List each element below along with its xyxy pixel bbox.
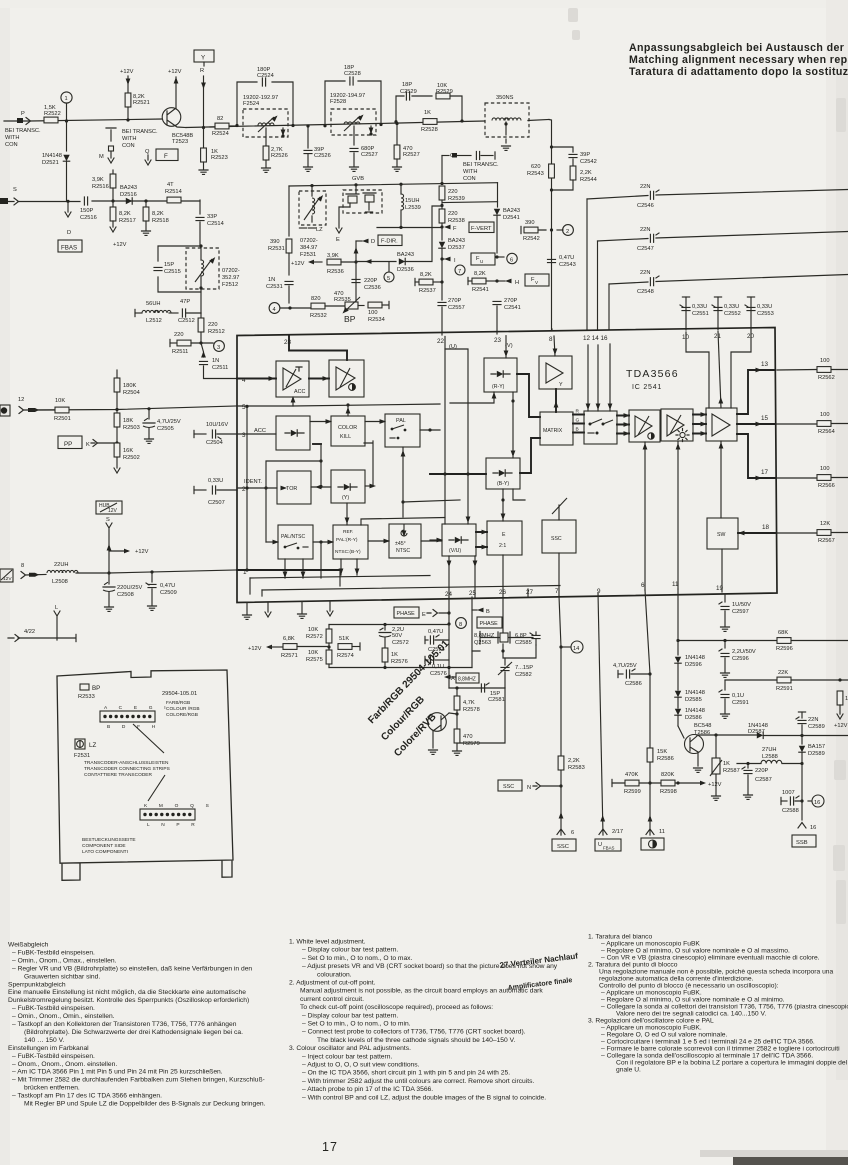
svg-text:CON: CON: [5, 142, 18, 148]
svg-text:620: 620: [531, 164, 541, 170]
svg-text:33P: 33P: [207, 214, 217, 220]
wire x442 column: [441, 156, 443, 184]
svg-text:8,8MHZ: 8,8MHZ: [474, 633, 495, 639]
svg-text:TOR: TOR: [286, 486, 297, 492]
svg-text:SSC: SSC: [503, 784, 514, 790]
svg-text:180K: 180K: [123, 383, 136, 389]
input connector S: [0, 187, 19, 205]
svg-text:384.97: 384.97: [300, 245, 317, 251]
bottom pin labels 24-27 7 9: [445, 588, 601, 598]
S stub below: [106, 517, 112, 575]
transcoder note: [84, 760, 170, 778]
stub E: [336, 207, 350, 243]
resistor R2504: [114, 370, 140, 409]
pin2 wire: [237, 486, 287, 491]
input connector P: [17, 111, 31, 125]
svg-text:R2526: R2526: [271, 153, 288, 159]
svg-text:(R-Y): (R-Y): [492, 384, 505, 390]
resistor R2503: [114, 410, 140, 445]
svg-text:3. Regolazioni dell'oscillator: 3. Regolazioni dell'oscillatore colore e…: [588, 1018, 714, 1025]
svg-text:1N: 1N: [268, 277, 275, 283]
svg-text:07202-: 07202-: [300, 238, 318, 244]
PAL down wire: [401, 447, 460, 517]
svg-text:12V: 12V: [108, 508, 118, 514]
wire down to C2588: [800, 764, 803, 821]
phase top wire: [329, 623, 449, 626]
pins 12 14 16: [583, 335, 608, 342]
svg-text:BA157: BA157: [808, 744, 825, 750]
svg-text:1K: 1K: [723, 761, 730, 767]
svg-text:– With control BP and coil LZ: – With control BP and coil LZ, adjust th…: [302, 1094, 546, 1101]
node 6 circle: [497, 253, 517, 263]
svg-text:R2536: R2536: [327, 269, 344, 275]
crystal bottom wire: [472, 644, 536, 658]
resistor R2538: [439, 206, 465, 240]
diode D2516: [120, 185, 137, 204]
svg-text:0,33U: 0,33U: [208, 478, 223, 484]
svg-text:BA243: BA243: [397, 252, 414, 258]
68K wire: [676, 639, 848, 642]
pin 21: [714, 333, 722, 340]
svg-text:1N4148: 1N4148: [685, 655, 705, 661]
resistor R2591: [776, 670, 793, 692]
svg-text:10K: 10K: [55, 398, 65, 404]
capacitor C2541: [493, 298, 521, 334]
note bei transc (mid): [122, 129, 158, 149]
resistor R2572: [306, 625, 332, 651]
resistor R2599: [624, 772, 641, 795]
resistor R2541: [468, 271, 499, 293]
capacitor C2591: [719, 680, 749, 718]
capacitor C2504: [194, 422, 237, 446]
svg-text:R2539: R2539: [448, 196, 465, 202]
crystal Q2563: [474, 632, 510, 646]
capacitor C2588: [781, 790, 802, 814]
resistor R2532: [310, 296, 344, 319]
svg-text:D2541: D2541: [503, 215, 520, 221]
resistor R2523: [199, 128, 228, 175]
internal bus below ACC: [264, 444, 322, 542]
capacitor C2509: [146, 572, 177, 610]
svg-text:1N4148: 1N4148: [685, 708, 705, 714]
filter F2528 labels: [330, 93, 365, 105]
svg-text:BESTUECKUNGSSEITE: BESTUECKUNGSSEITE: [82, 837, 136, 843]
resistor R2544: [552, 166, 597, 190]
resistor R2576: [382, 648, 408, 668]
svg-text:U: U: [598, 842, 602, 848]
svg-text:C2591: C2591: [732, 700, 749, 706]
stub D below node: [65, 203, 71, 236]
capacitor C2516: [80, 197, 97, 221]
svg-text:BEI TRANSC.: BEI TRANSC.: [122, 129, 158, 135]
V/U diode box: [442, 524, 476, 556]
svg-text:– Tastkopf an den Kollektoren: – Tastkopf an den Kollektoren der Transi…: [12, 1021, 237, 1028]
potentiometer R2587: [710, 735, 740, 800]
label box SSB: [792, 835, 816, 847]
470K 820K wire: [612, 779, 700, 786]
svg-text:F: F: [453, 226, 457, 232]
wire R to emitter node: [200, 68, 206, 129]
svg-text:1N: 1N: [212, 358, 219, 364]
component side note: [82, 837, 136, 855]
label box PHASE 2: [477, 617, 502, 628]
svg-text:– FuBK-Testbild einspeisen.: – FuBK-Testbild einspeisen.: [12, 1005, 95, 1012]
card title: [166, 700, 200, 718]
svg-text:6: 6: [571, 830, 574, 836]
svg-text:R2591: R2591: [776, 686, 793, 692]
svg-text:CON: CON: [463, 176, 476, 182]
svg-text:F-DIR.: F-DIR.: [381, 239, 398, 245]
stub D arrow: [356, 239, 375, 245]
node 8 circle: [456, 618, 467, 629]
label box U FBAS: [595, 839, 621, 851]
svg-text:6: 6: [510, 258, 513, 264]
label box SSC bottom: [552, 839, 576, 851]
capacitor C2507: [194, 478, 237, 506]
svg-text:1. Taratura del bianco: 1. Taratura del bianco: [588, 934, 652, 941]
PAL switch box: [385, 414, 420, 447]
external resistor R2562: [777, 358, 848, 381]
svg-text:CONTATTIERE TRANSCODER: CONTATTIERE TRANSCODER: [84, 772, 152, 778]
BP pad on card: [78, 684, 100, 700]
svg-text:Taratura di adattamento dopo l: Taratura di adattamento dopo la sostituz…: [629, 66, 848, 78]
slash above SSC: [552, 498, 567, 520]
svg-text:C2524: C2524: [257, 73, 274, 79]
diode D2536: [356, 206, 442, 273]
V/U to E21 wires: [476, 530, 488, 550]
capacitor C2505 electrolytic: [143, 409, 181, 444]
svg-text:3: 3: [217, 345, 220, 351]
svg-text:D2589: D2589: [808, 751, 825, 757]
svg-text:D2521: D2521: [42, 160, 59, 166]
switch box: [584, 411, 617, 444]
svg-text:D: D: [371, 239, 375, 245]
brightness to output rows: [693, 412, 707, 436]
resistor R2527: [393, 122, 420, 171]
svg-text:BEI TRANSC.: BEI TRANSC.: [5, 128, 41, 134]
22N wire 2: [598, 232, 848, 331]
trimmer F2531 labels: [300, 238, 318, 258]
connector stub Q: [145, 149, 151, 165]
svg-text:S: S: [13, 187, 17, 193]
svg-text:R2518: R2518: [152, 218, 169, 224]
svg-text:CON: CON: [122, 143, 135, 149]
node 3 circle: [214, 341, 225, 352]
svg-text:L2539: L2539: [405, 205, 421, 211]
svg-text:7: 7: [555, 588, 559, 595]
capacitor C2536: [352, 278, 381, 291]
svg-text:470: 470: [463, 734, 473, 740]
svg-text:R2531: R2531: [268, 246, 285, 252]
transistor T2523: [162, 77, 193, 145]
svg-text:BA243: BA243: [120, 185, 137, 191]
svg-text:C2551: C2551: [692, 311, 709, 317]
svg-text:1K: 1K: [391, 652, 398, 658]
svg-text:– Collegare la sonda dell'osc: – Collegare la sonda dell'oscilloscopio …: [601, 1053, 813, 1060]
filter F2524 labels: [243, 95, 278, 107]
node 16 circle: [808, 795, 824, 807]
svg-text:(B-Y): (B-Y): [497, 481, 509, 487]
note bei transc (left): [5, 128, 41, 148]
REF to 45NTSC wire: [368, 539, 390, 544]
svg-text:– Con VR e VB (piastra cinesc: – Con VR e VB (piastra cinescopio) elimi…: [601, 955, 820, 962]
svg-text:E: E: [422, 612, 426, 618]
svg-text:H: H: [515, 280, 519, 286]
svg-text:R2574: R2574: [337, 653, 354, 659]
pin6 column: [645, 590, 652, 835]
capacitor C2551: [680, 297, 709, 330]
svg-text:– Set O to min., O to nom., O: – Set O to min., O to nom., O to max.: [302, 955, 413, 962]
svg-text:C2548: C2548: [637, 289, 654, 295]
PAL/NTSC box: [278, 525, 313, 559]
L stub: [54, 605, 60, 640]
pin 28: [284, 336, 347, 351]
resistor R2539: [439, 186, 465, 207]
svg-text:– Am IC TDA 3566 Pin 1 mit Pin: – Am IC TDA 3566 Pin 1 mit Pin 5 und Pin…: [12, 1069, 223, 1076]
svg-text:C2585: C2585: [515, 640, 532, 646]
capacitor C2547: [637, 227, 659, 252]
svg-text:C2527: C2527: [361, 152, 378, 158]
svg-text:3,9K: 3,9K: [327, 253, 339, 259]
svg-text:F2531: F2531: [300, 252, 316, 258]
R-Y diode box: [484, 358, 517, 392]
svg-text:±45°: ±45°: [395, 541, 406, 547]
svg-text:F2528: F2528: [330, 99, 346, 105]
resistor R2522: [44, 105, 61, 123]
svg-text:15P: 15P: [164, 262, 174, 268]
resistor R2543: [527, 164, 554, 178]
svg-text:– Regler VR und VB (Bildrohrpl: – Regler VR und VB (Bildrohrplatte) so e…: [12, 965, 252, 972]
svg-text:6,8K: 6,8K: [283, 636, 295, 642]
E arrow to pin24: [422, 610, 449, 619]
svg-text:+12V: +12V: [120, 69, 134, 75]
svg-text:29504-105.01: 29504-105.01: [162, 691, 197, 697]
svg-text:R2516: R2516: [92, 184, 109, 190]
svg-text:NTSC:(B-Y): NTSC:(B-Y): [335, 549, 361, 555]
svg-text:3. Colour oscillator and PAL a: 3. Colour oscillator and PAL adjustments…: [289, 1045, 411, 1052]
svg-text:12V: 12V: [3, 576, 12, 582]
label box F-VERT: [469, 222, 494, 233]
svg-text:Grauwerten sichtbar sind.: Grauwerten sichtbar sind.: [24, 973, 100, 980]
svg-text:2:1: 2:1: [499, 543, 506, 549]
wire to F arrow row: [377, 225, 444, 229]
svg-text:– Cortocircuitare i terminali: – Cortocircuitare i terminali 1 e 5 ed i…: [601, 1039, 815, 1046]
K arrow to node: [86, 440, 117, 449]
node 14 circle: [561, 641, 583, 653]
german instructions column: [8, 942, 266, 1108]
R-Y bottom arrows: [450, 392, 515, 458]
svg-text:17: 17: [322, 1140, 338, 1154]
svg-text:Valore nero dei tre segnali ca: Valore nero dei tre segnali catodici ca.…: [616, 1011, 766, 1018]
svg-text:D2587: D2587: [748, 729, 765, 735]
svg-text:11: 11: [659, 829, 665, 835]
svg-text:D2537: D2537: [448, 245, 465, 251]
pin 5 label: [242, 404, 246, 411]
svg-text:22N: 22N: [640, 184, 650, 190]
Y diode box: [331, 470, 365, 503]
svg-text:D2596: D2596: [685, 662, 702, 668]
svg-text:R2571: R2571: [281, 653, 298, 659]
pin 4 label: [242, 377, 246, 384]
svg-text:colouration.: colouration.: [317, 971, 352, 978]
resistor R2592: [837, 691, 848, 719]
SSC input label: [498, 780, 561, 791]
GVB label: [352, 176, 364, 182]
inductor L2512: [142, 301, 178, 324]
svg-text:R2535: R2535: [334, 297, 351, 303]
SW bottom wire pin19: [716, 549, 724, 592]
svg-text:8,2K: 8,2K: [420, 272, 432, 278]
svg-text:8,2K: 8,2K: [474, 271, 486, 277]
svg-text:C2542: C2542: [580, 159, 597, 165]
svg-text:4,7U/25V: 4,7U/25V: [613, 663, 637, 669]
input 4/22: [8, 629, 76, 642]
svg-text:– FuBK-Testbild einspeisen.: – FuBK-Testbild einspeisen.: [12, 1053, 95, 1060]
brightness amp box: [661, 409, 693, 442]
label box FBAS: [58, 240, 82, 252]
label box PP: [58, 436, 82, 449]
svg-text:C2516: C2516: [80, 215, 97, 221]
svg-text:R2512: R2512: [208, 329, 225, 335]
svg-text:+12V: +12V: [708, 782, 722, 788]
svg-text:1N4148: 1N4148: [685, 690, 705, 696]
crystal network top wire: [480, 598, 533, 644]
capacitor C2587: [742, 764, 772, 800]
brightness bottom wire pin11: [672, 442, 680, 589]
svg-text:1: 1: [65, 96, 68, 102]
TOR to Ydiode wire: [311, 485, 331, 490]
PAL right wire: [420, 428, 440, 431]
svg-text:27UH: 27UH: [762, 747, 777, 753]
svg-text:16: 16: [814, 800, 820, 806]
capacitor C2512: [178, 299, 201, 324]
pin21 wire: [718, 331, 723, 408]
svg-text:18K: 18K: [123, 418, 133, 424]
svg-text:F2512: F2512: [222, 282, 238, 288]
svg-text:– Inject colour bar test patt: – Inject colour bar test pattern.: [302, 1053, 392, 1060]
capacitor C2508 electrolytic: [103, 573, 143, 611]
svg-text:15UH: 15UH: [405, 198, 420, 204]
BP label: [344, 314, 356, 324]
B arrow and PHASE 2: [472, 608, 490, 615]
node 7 circle: [455, 265, 465, 275]
pin8 wire into Yamp: [552, 329, 557, 356]
svg-text:SW: SW: [717, 532, 725, 538]
svg-text:100: 100: [820, 358, 830, 364]
internal left vertical: [245, 405, 248, 570]
output amp box: [706, 408, 737, 441]
SW box: [707, 518, 738, 549]
svg-text:2,2K: 2,2K: [568, 758, 580, 764]
svg-text:1K: 1K: [424, 110, 431, 116]
A2 output up: [346, 351, 348, 361]
svg-text:– Connect test probe to colle: – Connect test probe to collectors of T7…: [302, 1029, 526, 1036]
resistor R2501: [54, 398, 71, 422]
capacitor C2546: [637, 184, 659, 209]
svg-text:0,33U: 0,33U: [757, 304, 772, 310]
22K wire: [725, 678, 848, 681]
svg-text:Con il regolatore BP e la bobi: Con il regolatore BP e la bobina LZ port…: [616, 1060, 848, 1067]
svg-text:R2541: R2541: [472, 287, 489, 293]
resistor R2534: [358, 301, 389, 323]
svg-text:25: 25: [469, 590, 477, 597]
svg-text:3: 3: [242, 432, 246, 439]
label box F-DIR: [378, 235, 402, 246]
svg-text:R2522: R2522: [44, 111, 61, 117]
svg-text:220: 220: [208, 322, 218, 328]
B-Y bottom wires: [501, 489, 525, 521]
resistor R2596: [776, 630, 793, 652]
capacitor C2514: [196, 200, 224, 246]
pin1 internal wire: [237, 568, 340, 586]
svg-text:PAL: PAL: [396, 418, 406, 424]
svg-text:– Display colour bar test pat: – Display colour bar test pattern.: [302, 947, 398, 954]
svg-text:2,2U/50V: 2,2U/50V: [732, 649, 756, 655]
capacitor C2542 branch: [552, 147, 597, 165]
svg-text:13: 13: [761, 361, 769, 368]
svg-text:– Applicare un monoscopio FuB: – Applicare un monoscopio FuBK.: [601, 1025, 702, 1032]
svg-text:C2504: C2504: [206, 440, 223, 446]
svg-text:T2523: T2523: [172, 139, 188, 145]
TOR box: [277, 471, 311, 504]
svg-text:N: N: [527, 785, 531, 791]
pin 20: [747, 333, 755, 340]
svg-text:C2589: C2589: [808, 724, 825, 730]
resistor R2511: [170, 332, 213, 355]
svg-text:R2511: R2511: [172, 349, 188, 355]
PAL/NTSC input wire: [266, 540, 279, 545]
inductor L2588: [737, 747, 804, 765]
svg-text:22K: 22K: [778, 670, 788, 676]
svg-text:C2553: C2553: [757, 311, 774, 317]
svg-text:LATO COMPONENTI: LATO COMPONENTI: [82, 849, 128, 855]
svg-text:C2515: C2515: [164, 269, 181, 275]
TDA3566 title: [626, 368, 679, 391]
COLOR KILL box: [331, 405, 365, 446]
svg-text:– On the IC TDA 3566, short c: – On the IC TDA 3566, short circuit pin …: [302, 1070, 510, 1077]
column x497 from GVB: [443, 183, 498, 207]
connector strip 1: [100, 705, 171, 730]
svg-text:L N P R: L N P R: [147, 822, 200, 828]
svg-text:B: B: [486, 609, 490, 615]
note bei transc (right): [463, 162, 499, 182]
svg-text:R2538: R2538: [448, 218, 465, 224]
svg-text:15K: 15K: [657, 749, 667, 755]
svg-text:16: 16: [810, 825, 816, 831]
svg-text:D2585: D2585: [685, 697, 702, 703]
svg-text:R2562: R2562: [818, 375, 835, 381]
filter F2528 dashed box: [331, 109, 376, 136]
svg-text:+12V: +12V: [135, 549, 149, 555]
pin20 wire: [731, 330, 751, 408]
svg-text:6: 6: [641, 582, 645, 589]
svg-text:MATRIX: MATRIX: [543, 428, 563, 434]
svg-text:270P: 270P: [448, 298, 461, 304]
second U line: [445, 349, 470, 524]
label box F: [156, 149, 178, 161]
svg-text:C2541: C2541: [504, 305, 521, 311]
svg-text:07202-: 07202-: [222, 268, 240, 274]
svg-text:R2578: R2578: [463, 707, 480, 713]
svg-text:390: 390: [525, 220, 535, 226]
external resistor R2567: [777, 521, 848, 544]
diode D2541: [494, 208, 520, 253]
svg-text:C2596: C2596: [732, 656, 749, 662]
english instructions column: [289, 939, 558, 1102]
+12V rail 1: [120, 69, 134, 93]
svg-text:17: 17: [761, 469, 769, 476]
capacitor C2572 electrolytic: [379, 625, 409, 649]
